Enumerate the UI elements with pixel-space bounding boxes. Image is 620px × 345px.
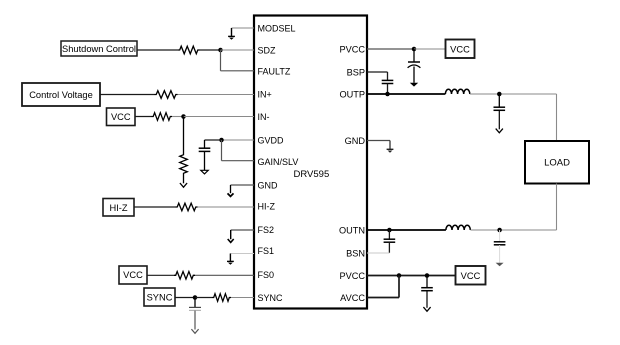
svg-text:PVCC: PVCC xyxy=(339,271,365,281)
wire Shutdown Control to R1 xyxy=(137,49,178,51)
resistor R2 (IN+) xyxy=(155,91,178,99)
node SYNC junction xyxy=(193,295,198,300)
ground (below C3) xyxy=(410,83,418,87)
wire LOAD to OUTN xyxy=(556,184,558,231)
node PVCC junction xyxy=(412,47,417,52)
resistor R3 (IN-) xyxy=(152,113,173,121)
svg-text:OUTN: OUTN xyxy=(339,225,365,235)
svg-text:LOAD: LOAD xyxy=(544,158,570,169)
ground (below C5) xyxy=(496,129,503,133)
capacitor C8 (PVCC bottom bypass) xyxy=(421,276,433,308)
svg-text:SDZ: SDZ xyxy=(258,45,277,55)
wire R4 to ground xyxy=(183,175,185,183)
capacitor C2 (SYNC) xyxy=(189,298,201,330)
svg-text:GVDD: GVDD xyxy=(258,135,285,145)
svg-text:HI-Z: HI-Z xyxy=(258,201,276,211)
wire VCC to R6 xyxy=(147,274,174,276)
VCC box (PVCC top) xyxy=(446,40,475,59)
wire GND pin (left) to ground xyxy=(231,184,255,186)
resistor R4 (IN- pulldown) xyxy=(180,153,188,175)
wire PVCC pin (bottom) to VCC box xyxy=(367,275,456,277)
svg-text:FS0: FS0 xyxy=(258,270,275,280)
wire OUTN pin to inductor L2 xyxy=(367,229,446,231)
op-amp U1 DRV595 IC body xyxy=(254,16,367,309)
svg-text:GND: GND xyxy=(258,180,279,190)
wire L1 to node OUTP-C5 xyxy=(470,93,557,95)
wire PVCC pin to node xyxy=(367,48,414,50)
svg-text:VCC: VCC xyxy=(111,112,131,122)
resistor R7 (SYNC) xyxy=(212,294,231,302)
wire R5 to HI-Z pin xyxy=(198,206,255,208)
resistor R5 (HI-Z) xyxy=(176,203,198,211)
svg-text:FS2: FS2 xyxy=(258,225,275,235)
svg-text:SYNC: SYNC xyxy=(258,293,284,303)
wire node IN- down to R4 xyxy=(183,117,185,154)
resistor R1 (SDZ) xyxy=(178,46,200,54)
svg-text:GND: GND xyxy=(345,136,366,146)
wire L2 to node OUTN-C7 xyxy=(471,229,557,231)
wire SDZ node to FAULTZ pin xyxy=(221,50,255,71)
wire node to IN- pin xyxy=(184,116,255,118)
wire node to R7 xyxy=(195,297,212,299)
wire HI-Z box to R5 xyxy=(134,206,176,208)
wire R3 to node IN- xyxy=(172,116,184,118)
svg-text:FAULTZ: FAULTZ xyxy=(258,66,291,76)
svg-text:BSN: BSN xyxy=(346,248,365,258)
node PVCC-AVCC junction xyxy=(397,273,402,278)
ground (MODSEL) xyxy=(228,28,235,40)
wire BSN pin to C6 xyxy=(367,252,389,254)
ground (FS2) xyxy=(228,230,234,242)
VCC box (PVCC bottom) xyxy=(456,266,486,285)
pin labels left side U1 xyxy=(258,23,299,303)
ground (left GND pin) xyxy=(228,185,234,196)
ground (FS1) xyxy=(227,254,234,265)
wire R1 to node SDZ xyxy=(200,49,221,51)
wire GND pin (right) to ground xyxy=(367,140,390,142)
wire VCC to R3 xyxy=(135,116,152,118)
ground (below C7) xyxy=(496,263,504,266)
node IN- junction xyxy=(181,114,186,119)
wire R7 to SYNC pin xyxy=(231,297,254,299)
Shutdown Control input box xyxy=(61,41,137,56)
capacitor C3 (PVCC bulk, polarized) xyxy=(408,49,421,83)
inductor L2 (OUTN) xyxy=(446,225,470,230)
VCC box (FS0) xyxy=(119,266,147,284)
capacitor C6 (bootstrap N) xyxy=(384,230,396,253)
wire GVDD pin to node xyxy=(222,139,255,141)
pin labels right side U1 xyxy=(339,44,365,303)
wire OUTP pin to inductor L1 xyxy=(367,93,445,95)
ground (below C1) xyxy=(201,170,208,174)
wire OUTP to LOAD xyxy=(556,94,558,141)
svg-text:Control Voltage: Control Voltage xyxy=(29,90,93,100)
svg-text:BSP: BSP xyxy=(347,67,365,77)
SYNC input box xyxy=(144,288,175,306)
wire BSP pin to C4 xyxy=(367,72,388,80)
wire AVCC pin to PVCC node xyxy=(367,276,399,298)
wire node GVDD to C1 xyxy=(205,139,222,141)
node OUTP-C5 junction xyxy=(497,92,502,97)
VCC box (IN- bias) xyxy=(107,108,136,126)
wire node to VCC box xyxy=(414,48,446,50)
wire FS1 pin to ground xyxy=(230,253,254,255)
node PVCC-C8 junction xyxy=(425,273,430,278)
inductor L1 (OUTP) xyxy=(445,89,469,94)
svg-text:IN+: IN+ xyxy=(258,89,272,99)
svg-text:AVCC: AVCC xyxy=(340,293,365,303)
svg-text:DRV595: DRV595 xyxy=(294,169,330,180)
ground (below C8) xyxy=(423,307,430,311)
wire GVDD node to GAIN/SLV pin xyxy=(222,140,255,161)
wire FS2 pin to ground xyxy=(231,229,254,231)
HI-Z input box xyxy=(103,199,134,217)
svg-text:SYNC: SYNC xyxy=(147,293,173,303)
wire Control Voltage to R2 xyxy=(100,94,155,96)
svg-text:PVCC: PVCC xyxy=(339,44,365,54)
wire R6 to FS0 pin xyxy=(195,274,254,276)
capacitor C5 (OUTP filter) xyxy=(494,94,506,129)
node SDZ junction xyxy=(218,48,223,53)
node OUTN-BSN junction xyxy=(387,228,392,233)
svg-text:IN-: IN- xyxy=(258,112,270,122)
svg-text:HI-Z: HI-Z xyxy=(109,203,127,213)
ground (below R4) xyxy=(180,183,187,187)
svg-text:FS1: FS1 xyxy=(258,246,275,256)
svg-text:Shutdown Control: Shutdown Control xyxy=(62,44,136,54)
resistor R6 (FS0) xyxy=(174,272,195,280)
node OUTP-BSP junction xyxy=(385,92,390,97)
svg-text:VCC: VCC xyxy=(123,270,143,280)
svg-text:OUTP: OUTP xyxy=(339,89,365,99)
ground (right GND pin) xyxy=(387,141,394,153)
node OUTN-C7 junction xyxy=(497,228,502,233)
LOAD box xyxy=(525,141,589,184)
wire node to SDZ pin xyxy=(221,49,255,51)
Control Voltage input box xyxy=(22,83,100,106)
wire SYNC box to node xyxy=(175,297,195,299)
wire MODSEL pin to ground xyxy=(232,27,255,29)
svg-text:VCC: VCC xyxy=(450,44,470,54)
capacitor C1 (GVDD bypass) xyxy=(199,140,211,170)
svg-text:VCC: VCC xyxy=(461,271,481,281)
svg-text:MODSEL: MODSEL xyxy=(258,23,296,33)
capacitor C7 (OUTN filter) xyxy=(494,230,506,263)
node GVDD junction xyxy=(219,138,224,143)
wire R2 to IN+ pin xyxy=(178,94,255,96)
ground (below C2) xyxy=(191,329,198,333)
svg-text:GAIN/SLV: GAIN/SLV xyxy=(258,157,299,167)
capacitor C4 (bootstrap P) xyxy=(382,80,394,94)
